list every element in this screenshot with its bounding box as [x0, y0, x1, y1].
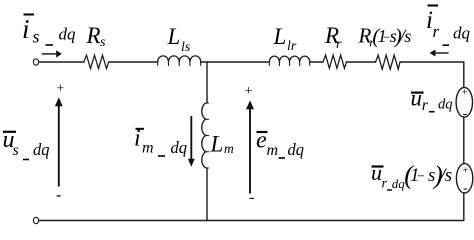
current arrow ir_dq: [430, 50, 449, 57]
svg-text:L: L: [167, 24, 181, 49]
wire node A down to Lm: [206, 62, 208, 103]
svg-text:dq: dq: [59, 25, 77, 44]
terminal bottom-left: [33, 217, 38, 223]
svg-text:lr: lr: [287, 39, 297, 54]
wire Llr to Rr: [310, 61, 323, 63]
label Llr: [273, 24, 297, 54]
svg-text:s: s: [445, 165, 452, 186]
label ur_dq(1-s)/s: [371, 160, 452, 192]
svg-text:s: s: [404, 26, 411, 46]
terminal top-left: [33, 59, 38, 65]
svg-text:R: R: [86, 23, 101, 48]
svg-text:m: m: [267, 142, 279, 159]
voltage source ur_dq(1-s)/s: [456, 164, 472, 193]
svg-text:r: r: [422, 97, 429, 114]
svg-text:ls: ls: [181, 40, 191, 55]
resistor Rs: [84, 55, 109, 68]
label em_dq: [256, 128, 304, 160]
svg-text:+: +: [461, 88, 468, 99]
svg-text:u: u: [371, 160, 382, 185]
wire between sources: [463, 117, 465, 164]
svg-text:-: -: [463, 181, 468, 196]
svg-text:m: m: [224, 141, 234, 156]
label ir_dq: [426, 6, 471, 46]
wire Rr to Rr(1-s)/s: [346, 61, 375, 63]
svg-text:dq: dq: [33, 140, 50, 159]
voltage source ur_dq: [456, 87, 472, 117]
inductor Llr: [269, 56, 309, 62]
label is_dq: [22, 14, 76, 47]
label Lm: [210, 132, 235, 157]
svg-text:s: s: [13, 142, 19, 159]
label Rr(1-s)/s: [358, 24, 412, 50]
voltage arrow em_dq: [246, 100, 254, 193]
inductor Lm: [202, 103, 207, 168]
svg-text:dq: dq: [171, 138, 188, 157]
svg-text:s: s: [33, 27, 40, 47]
voltage arrow us_dq: [55, 97, 63, 186]
svg-text:−: −: [416, 170, 425, 185]
svg-text:dq: dq: [453, 24, 471, 43]
wire Lm to bottom: [206, 168, 208, 221]
resistor Rr(1-s)/s: [376, 55, 401, 69]
wire Lls to Llr (through node A): [201, 61, 270, 63]
svg-text:dq: dq: [288, 140, 305, 159]
wire Rs to Lls: [109, 61, 158, 63]
current arrow im_dq: [188, 116, 195, 167]
svg-text:r: r: [433, 22, 440, 41]
current arrow is_dq: [42, 50, 62, 57]
wire top: terminal to Rs: [39, 61, 84, 63]
resistor Rr: [323, 55, 347, 68]
svg-text:-: -: [463, 106, 468, 121]
wire to top-right corner: [400, 62, 464, 88]
label Rr: [324, 23, 342, 52]
svg-text:u: u: [411, 86, 423, 111]
wire bottom: [39, 220, 464, 222]
label Lls: [167, 24, 191, 55]
svg-text:-: -: [56, 187, 61, 204]
svg-text:r: r: [382, 177, 388, 192]
svg-text:+: +: [244, 84, 253, 99]
svg-text:L: L: [210, 132, 224, 157]
svg-text:m: m: [142, 140, 154, 157]
svg-text:-: -: [249, 189, 254, 206]
svg-text:r: r: [336, 37, 342, 52]
label Rs: [86, 23, 107, 50]
svg-text:s: s: [100, 35, 106, 50]
svg-text:i: i: [22, 14, 30, 44]
svg-text:L: L: [273, 24, 287, 49]
svg-text:+: +: [462, 165, 469, 176]
svg-text:dq: dq: [438, 96, 453, 112]
wire source to bottom-right corner: [463, 193, 465, 221]
inductor Lls: [158, 56, 201, 62]
svg-text:+: +: [56, 82, 65, 97]
label ur_dq: [411, 86, 453, 115]
label im_dq: [134, 126, 187, 158]
svg-text:dq: dq: [392, 176, 406, 191]
label us_dq: [3, 127, 50, 160]
